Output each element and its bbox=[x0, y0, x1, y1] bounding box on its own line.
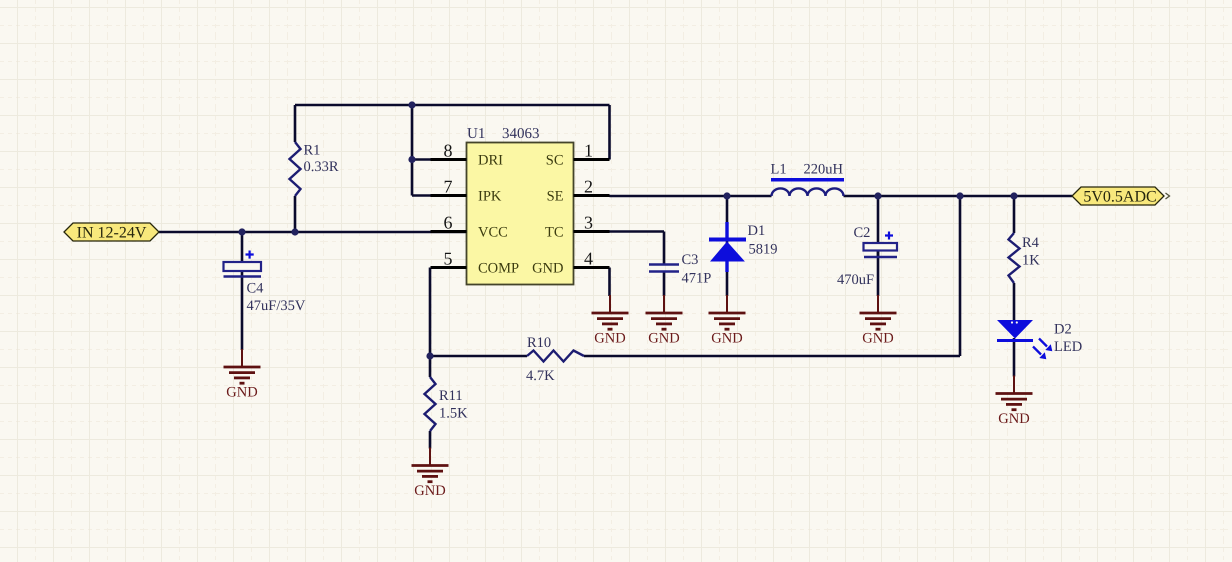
svg-text:TC: TC bbox=[545, 225, 564, 241]
wire R11 bottom lead to ground bbox=[429, 431, 432, 449]
svg-text:470uF: 470uF bbox=[837, 272, 874, 288]
svg-text:471P: 471P bbox=[682, 271, 712, 287]
wire C4 top lead bbox=[241, 232, 244, 262]
wire C3 top lead bbox=[663, 232, 666, 265]
wire feedback riser at x=960 bbox=[959, 196, 962, 356]
svg-text:8: 8 bbox=[444, 141, 453, 161]
svg-text:R11: R11 bbox=[439, 388, 463, 404]
svg-text:7: 7 bbox=[444, 177, 453, 197]
svg-text:SC: SC bbox=[546, 153, 564, 169]
svg-text:C2: C2 bbox=[854, 225, 871, 241]
svg-text:LED: LED bbox=[1054, 339, 1082, 355]
junction pin 8 tap bbox=[408, 156, 415, 163]
wire pin 3 TC horizontal bbox=[610, 230, 665, 233]
port 5V0.5ADC arrow tip bbox=[1166, 193, 1170, 199]
svg-text:COMP: COMP bbox=[478, 261, 519, 277]
svg-text:C4: C4 bbox=[247, 281, 265, 297]
wire vertical drop at x=412 bbox=[411, 105, 414, 196]
svg-text:R4: R4 bbox=[1022, 235, 1040, 251]
wire D1 branch bbox=[726, 196, 729, 296]
svg-text:5: 5 bbox=[444, 249, 453, 269]
ground symbol at C3 bbox=[646, 295, 683, 347]
svg-text:IN 12-24V: IN 12-24V bbox=[77, 225, 147, 242]
svg-text:2: 2 bbox=[584, 177, 593, 197]
svg-text:L1: L1 bbox=[771, 162, 787, 178]
wire R1 bottom lead to input net bbox=[294, 196, 297, 232]
wire pin 5 COMP drop bbox=[429, 268, 432, 357]
svg-text:1.5K: 1.5K bbox=[439, 406, 468, 422]
svg-text:3: 3 bbox=[584, 213, 593, 233]
svg-text:47uF/35V: 47uF/35V bbox=[247, 298, 306, 314]
svg-text:4: 4 bbox=[584, 249, 593, 269]
capacitor C2 polarized bbox=[864, 243, 898, 257]
wire top net from R1 to pin 1 bbox=[295, 104, 610, 107]
svg-text:1: 1 bbox=[584, 141, 593, 161]
junction top net at x=412 bbox=[408, 101, 415, 108]
pin 1 stub bbox=[574, 158, 610, 161]
svg-text:D1: D1 bbox=[748, 223, 766, 239]
svg-text:220uH: 220uH bbox=[804, 162, 844, 178]
svg-text:1K: 1K bbox=[1022, 253, 1040, 269]
resistor R11 bbox=[425, 377, 436, 431]
capacitor C3 bbox=[649, 265, 679, 272]
wire input net from port IN to pin 6 VCC bbox=[159, 231, 466, 234]
resistor R1 bbox=[290, 142, 301, 196]
wire pin 1 SC riser bbox=[608, 105, 611, 160]
svg-text:U1: U1 bbox=[467, 126, 485, 142]
wire C4 bottom lead to ground bbox=[241, 277, 244, 351]
wire output net L1 to port 5V0.5ADC bbox=[844, 195, 1073, 198]
wire R4 top lead bbox=[1013, 196, 1016, 233]
C4 plus polarity mark bbox=[246, 251, 254, 259]
junction R10 R11 COMP node bbox=[426, 352, 433, 359]
ground symbol at C4 bbox=[224, 349, 261, 401]
junction C4 tap on input net bbox=[238, 228, 245, 235]
LED D2 bbox=[997, 320, 1033, 341]
svg-text:GND: GND bbox=[532, 261, 563, 277]
svg-text:4.7K: 4.7K bbox=[526, 368, 555, 384]
wire feedback horizontal left of R10 bbox=[430, 355, 527, 358]
wire C2 branch bbox=[877, 196, 880, 296]
wire R4 to D2 bbox=[1013, 283, 1016, 321]
C2 plus polarity mark bbox=[885, 232, 893, 240]
svg-text:R10: R10 bbox=[527, 335, 551, 351]
junction C2 tap on output net bbox=[874, 192, 881, 199]
wire output net pin 2 SE to L1 bbox=[610, 195, 772, 198]
svg-text:SE: SE bbox=[547, 189, 564, 205]
diode D1 bbox=[709, 222, 746, 272]
svg-text:VCC: VCC bbox=[478, 225, 508, 241]
resistor R10 bbox=[527, 351, 584, 362]
wire D2 cathode lead to ground bbox=[1013, 338, 1016, 377]
pin 2 stub bbox=[574, 194, 610, 197]
ground symbol at C2 bbox=[860, 295, 897, 347]
svg-text:IPK: IPK bbox=[478, 189, 502, 205]
resistor R4 bbox=[1009, 233, 1020, 283]
wire R1 top lead bbox=[294, 105, 297, 142]
svg-text:5V0.5ADC: 5V0.5ADC bbox=[1083, 189, 1156, 206]
wire pin 4 GND drop bbox=[608, 268, 611, 297]
svg-text:DRI: DRI bbox=[478, 153, 503, 169]
pin 6 stub bbox=[431, 230, 467, 233]
pin 3 stub bbox=[574, 230, 610, 233]
svg-text:R1: R1 bbox=[304, 143, 321, 159]
pin 8 stub bbox=[431, 158, 467, 161]
capacitor C4 polarized bbox=[224, 262, 262, 277]
svg-text:D2: D2 bbox=[1054, 322, 1072, 338]
wire feedback horizontal right of R10 bbox=[584, 355, 960, 358]
svg-text:6: 6 bbox=[444, 213, 453, 233]
ground symbol at R11 bbox=[412, 448, 449, 500]
wire to pin 7 IPK bbox=[412, 194, 431, 197]
svg-text:5819: 5819 bbox=[749, 242, 778, 258]
op-amp converter IC U1 body bbox=[467, 143, 574, 285]
svg-text:34063: 34063 bbox=[502, 126, 540, 142]
junction R1 bottom on input net bbox=[291, 228, 298, 235]
pin 4 stub bbox=[574, 266, 610, 269]
svg-text:C3: C3 bbox=[682, 252, 699, 268]
ground symbol at pin 4 bbox=[592, 295, 629, 347]
D2 emission arrow 2 bbox=[1033, 347, 1046, 360]
D2 emission arrow 1 bbox=[1039, 339, 1052, 352]
junction D1 tap on output net bbox=[723, 192, 730, 199]
port IN 12-24V bbox=[64, 223, 159, 242]
inductor L1 bar bbox=[771, 178, 844, 182]
pin 7 stub bbox=[431, 194, 467, 197]
ground symbol at D2 bbox=[996, 376, 1033, 428]
inductor L1 winding arcs bbox=[772, 188, 844, 196]
wire R11 top lead bbox=[429, 356, 432, 377]
port 5V0.5ADC bbox=[1072, 187, 1164, 206]
svg-text:0.33R: 0.33R bbox=[304, 159, 339, 175]
pin 5 stub bbox=[431, 266, 467, 269]
junction feedback tap on output net bbox=[956, 192, 963, 199]
ground symbol at D1 bbox=[709, 295, 746, 347]
wire to pin 8 DRI bbox=[412, 158, 431, 161]
junction R4 tap on output net bbox=[1010, 192, 1017, 199]
wire C3 bottom lead to ground bbox=[663, 272, 666, 297]
